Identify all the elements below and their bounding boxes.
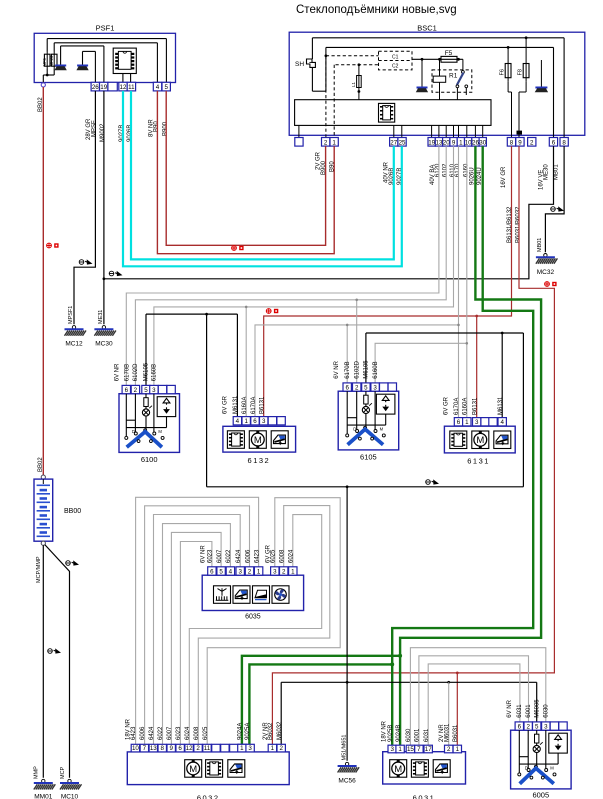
wire [145, 394, 147, 398]
wire B6031 branch [456, 673, 458, 745]
inductor L1 [351, 63, 361, 99]
pin 20 [443, 138, 450, 147]
6100 switch contacts [125, 429, 164, 440]
pin (empty) [489, 418, 497, 426]
pin 1 [463, 418, 471, 426]
6131 window-lift icon [494, 431, 511, 449]
svg-text:2: 2 [447, 746, 451, 753]
6131 electronics icon [450, 431, 467, 449]
battery BB00 [34, 479, 53, 541]
svg-text:26: 26 [92, 84, 99, 91]
pin stub [458, 125, 460, 137]
pin 6 [549, 138, 557, 147]
wire [126, 419, 135, 421]
svg-text:MB01: MB01 [554, 164, 560, 180]
fuse F6 [500, 46, 512, 138]
svg-text:6102D: 6102D [355, 360, 361, 378]
svg-text:M6031: M6031 [445, 723, 451, 742]
6105 resistor [364, 395, 368, 404]
pin stub [431, 125, 433, 137]
6105 indicator lamp [362, 403, 372, 413]
svg-text:6032: 6032 [197, 794, 220, 799]
splice B6131/B6132 (red) [266, 309, 278, 314]
pin 12 [119, 82, 127, 91]
6035 fan icon [272, 586, 289, 604]
pin (empty) [221, 744, 229, 752]
wire [519, 763, 558, 765]
window motor unit 6032 [127, 752, 289, 785]
svg-text:6025: 6025 [203, 726, 209, 740]
svg-text:10: 10 [132, 745, 139, 752]
6035 door glass icon [253, 586, 270, 604]
internal ground (near R1) [416, 58, 428, 92]
fuse F8 [518, 36, 529, 137]
pin 5 [533, 722, 541, 730]
svg-text:SH: SH [295, 61, 304, 68]
svg-text:5: 5 [364, 384, 368, 391]
6035 window icon [233, 586, 250, 604]
pin 3 (green) [246, 744, 254, 752]
6132 electronics icon [227, 431, 244, 449]
svg-text:M: M [380, 427, 384, 432]
pin 8b [560, 138, 568, 147]
svg-text:6424: 6424 [149, 726, 155, 740]
pin 1 (supply) [268, 744, 276, 752]
svg-text:6: 6 [253, 418, 257, 425]
svg-text:9: 9 [169, 745, 173, 752]
svg-text:MC10: MC10 [61, 794, 79, 799]
pin 2 [245, 567, 253, 575]
svg-text:6170A: 6170A [251, 397, 257, 414]
pin 2 [524, 722, 532, 730]
svg-text:4: 4 [500, 419, 504, 426]
ground MC12 [65, 326, 87, 336]
svg-text:6024: 6024 [289, 549, 295, 563]
svg-text:6V GR: 6V GR [223, 395, 229, 414]
wire MPSF (black) PSF1 pin26 to MC12 [74, 91, 95, 324]
wire BB02 (red) PSF1 to battery [42, 87, 44, 475]
svg-text:6V NR: 6V NR [200, 545, 206, 563]
pin 8 [158, 744, 166, 752]
wire M6032 to 6032 [280, 682, 282, 744]
svg-text:BSC1: BSC1 [417, 24, 437, 33]
BSC1 internal IC U2 [379, 103, 395, 122]
wire [518, 730, 520, 772]
pin 3 [150, 385, 158, 393]
internal ground 1 [55, 46, 67, 70]
svg-text:6030: 6030 [544, 704, 550, 718]
splice e+ (MCP) [66, 560, 79, 565]
svg-text:6160B: 6160B [373, 361, 379, 378]
wire [46, 69, 48, 75]
svg-text:BB00: BB00 [64, 508, 81, 515]
svg-text:C1: C1 [392, 54, 399, 60]
pin 8 [507, 138, 515, 147]
pin 11 [203, 744, 211, 752]
6105 selector lever (blue) [348, 429, 384, 445]
wire [145, 407, 147, 409]
svg-text:6008: 6008 [280, 549, 286, 563]
wire to pin 8 (MB01) [563, 38, 565, 138]
svg-text:2: 2 [279, 745, 283, 752]
pin 6 [208, 567, 216, 575]
svg-text:MB01: MB01 [537, 238, 543, 252]
6031 motor icon M [390, 760, 407, 778]
svg-text:6022: 6022 [158, 726, 164, 740]
pin 30 [479, 138, 486, 147]
svg-text:MC12: MC12 [65, 341, 83, 348]
6132 motor icon M [249, 431, 266, 449]
roof console unit 6035 [202, 575, 303, 610]
svg-text:6031: 6031 [424, 728, 430, 742]
wire 6024 (grey) 6035 - 6032 [189, 515, 321, 745]
wire [53, 69, 55, 75]
wire M9002/ME31 (black) PSF1 pin19 to MC30 [103, 91, 105, 324]
pin 13 [149, 744, 157, 752]
wire [557, 753, 559, 764]
svg-text:6031: 6031 [413, 794, 436, 799]
wire [165, 39, 167, 83]
wire M6031 to 6031 (grey) [448, 682, 450, 745]
pin 5 [362, 383, 370, 391]
svg-text:M6105: M6105 [364, 360, 370, 379]
svg-text:9025B: 9025B [388, 725, 394, 742]
svg-text:2: 2 [248, 568, 252, 575]
connector SH [295, 59, 315, 68]
svg-text:2: 2 [134, 387, 138, 394]
switch unit 6105 [338, 391, 399, 450]
wire [366, 332, 524, 334]
6005 switch contacts [518, 765, 556, 776]
pin (empty) [481, 418, 489, 426]
svg-text:M: M [476, 435, 484, 446]
wire 6008 (grey) 6035 - 6032 [198, 506, 329, 745]
svg-text:D: D [525, 766, 528, 771]
node BB02 terminal [41, 83, 45, 87]
6032 electronics icon [206, 760, 223, 778]
svg-text:9024B: 9024B [396, 725, 402, 742]
wire MCP (black) battery to MC10 [45, 545, 70, 778]
svg-text:BB02: BB02 [38, 457, 44, 472]
pin 3 [371, 383, 379, 391]
svg-text:ME30: ME30 [543, 164, 549, 180]
svg-text:MC56: MC56 [338, 778, 356, 785]
pin 1 [242, 417, 250, 425]
fuse F5 [412, 50, 463, 62]
pin 10 [465, 138, 472, 147]
svg-text:3: 3 [152, 387, 156, 394]
wire [325, 47, 327, 91]
wire rail (M9002) [61, 45, 104, 47]
wire [103, 46, 105, 82]
wire [156, 43, 158, 83]
wire M6131 to 6132 pin4 [236, 314, 238, 417]
svg-text:3: 3 [262, 418, 266, 425]
svg-text:6005: 6005 [532, 791, 549, 799]
svg-text:B900: B900 [162, 121, 168, 136]
svg-text:6007: 6007 [217, 549, 223, 563]
svg-text:3: 3 [273, 568, 277, 575]
svg-text:B6131: B6131 [472, 397, 478, 415]
svg-text:MF24: MF24 [49, 55, 54, 66]
wire [536, 743, 538, 745]
wire [312, 90, 326, 92]
pin (empty) [380, 383, 388, 391]
svg-text:2: 2 [530, 139, 534, 146]
wire [125, 394, 127, 436]
svg-text:PSF1: PSF1 [96, 24, 115, 33]
svg-text:6: 6 [518, 723, 522, 730]
svg-text:5: 5 [144, 387, 148, 394]
wire 6025 (grey) 6035 - 6032 [207, 498, 340, 745]
splice BB02 (red) [47, 243, 59, 248]
svg-text:1: 1 [465, 419, 469, 426]
svg-text:6102: 6102 [443, 163, 449, 177]
pin 15 [406, 745, 414, 753]
wire M6131 to 6131 pin4 [501, 333, 503, 418]
pin 10 [131, 744, 139, 752]
svg-text:MC32: MC32 [537, 269, 555, 276]
pin 3 [260, 417, 268, 425]
wire MB01 (black) BSC1 pin8 to MC32 [545, 146, 564, 252]
6100 rocker switch [157, 397, 176, 417]
svg-text:6008: 6008 [194, 726, 200, 740]
svg-text:6007: 6007 [167, 726, 173, 740]
pin 4 [226, 567, 234, 575]
window motor unit 6132 [223, 426, 296, 452]
svg-text:6170B: 6170B [345, 361, 351, 378]
pin 6 [122, 385, 130, 393]
svg-text:6100: 6100 [141, 455, 158, 464]
pin 1 [254, 567, 262, 575]
svg-text:1: 1 [398, 746, 402, 753]
wire B6031/B6032 (red) to 6031 and 6032 [272, 146, 554, 744]
pin 5 [217, 567, 225, 575]
wire 6022 (grey) 6035 - 6032 [163, 524, 231, 745]
svg-text:6131: 6131 [467, 457, 490, 466]
6131 motor icon M [472, 431, 489, 449]
pin 4 [498, 418, 506, 426]
svg-text:1: 1 [291, 568, 295, 575]
svg-text:8: 8 [510, 139, 514, 146]
wire 6160 (grey) BSC1 pin10 to 6131 pin1 / 6105 pin3 [466, 146, 468, 418]
6105 rocker switch [376, 394, 395, 414]
wire [145, 416, 147, 430]
svg-text:L1: L1 [351, 81, 356, 87]
wire [207, 486, 524, 488]
pin 3 [236, 567, 244, 575]
wire 9025A (green branch) [249, 664, 392, 744]
svg-text:MMP: MMP [34, 766, 40, 779]
splice B900 (red) [232, 246, 244, 251]
wire [365, 404, 367, 406]
svg-text:3: 3 [544, 723, 548, 730]
wire 6110 (grey) BSC1 pin9 to 6100 pin3 / 6132 pin1 [154, 146, 454, 385]
svg-text:30: 30 [479, 139, 486, 146]
wire [311, 67, 313, 91]
svg-text:B90: B90 [154, 121, 160, 132]
svg-text:6: 6 [210, 568, 214, 575]
svg-text:1: 1 [271, 745, 275, 752]
wire [153, 394, 155, 432]
svg-text:9024A: 9024A [238, 723, 244, 740]
6005 selector lever (blue) [520, 768, 554, 784]
svg-text:1: 1 [240, 745, 244, 752]
pin stub [445, 125, 447, 137]
6005 rocker switch [549, 733, 568, 753]
node battery negative [41, 541, 45, 545]
svg-text:2: 2 [526, 723, 530, 730]
pin 5 [162, 82, 170, 91]
pin 2 [445, 745, 453, 753]
pin stub [466, 125, 468, 137]
pin (empty) [550, 722, 558, 730]
wire [346, 391, 348, 433]
6032 motor icon M [185, 760, 202, 778]
svg-text:M6105: M6105 [144, 362, 150, 381]
6100 resistor [144, 398, 148, 407]
svg-text:R1: R1 [449, 73, 458, 80]
svg-text:4: 4 [156, 84, 160, 91]
pin 1 [396, 745, 404, 753]
wire 9027B (cyan) PSF1 pin12 - BSC1 pin25 [123, 91, 402, 266]
svg-text:6031: 6031 [517, 704, 523, 718]
wire rail2 [326, 46, 554, 48]
svg-text:3: 3 [373, 384, 377, 391]
dashed line to pin 1 [333, 65, 335, 138]
ground MC56 [338, 762, 360, 772]
pin 2 [322, 138, 330, 147]
pin 3 [388, 745, 396, 753]
6031 electronics icon [411, 760, 428, 778]
pin 3 [542, 722, 550, 730]
dashed control line [326, 55, 379, 57]
svg-text:25: 25 [399, 139, 406, 146]
6105 switch contacts [346, 426, 386, 437]
svg-text:MC30: MC30 [95, 341, 113, 348]
svg-text:6030: 6030 [406, 728, 412, 742]
wire [545, 730, 547, 768]
svg-text:6: 6 [457, 419, 461, 426]
svg-text:6: 6 [178, 745, 182, 752]
svg-text:D: D [353, 427, 356, 432]
svg-text:6V NR: 6V NR [507, 699, 513, 717]
svg-text:M: M [254, 435, 262, 446]
svg-text:8: 8 [562, 139, 566, 146]
svg-text:M6131: M6131 [498, 396, 504, 415]
wire 6102D branch [356, 300, 358, 383]
pin 1g2 [289, 567, 297, 575]
ECU PSF1 (engine-bay fuse box) [34, 24, 175, 83]
ECU BSC1 (body control unit) [289, 24, 585, 136]
wire ME30 (black) BSC1 pin6 to splice line [104, 146, 554, 279]
capacitors C1 C2 (dashed block) [379, 51, 413, 70]
pin 2 [353, 383, 361, 391]
svg-text:1: 1 [244, 418, 248, 425]
svg-text:6160B: 6160B [152, 364, 158, 381]
wire [519, 756, 528, 758]
svg-text:11: 11 [204, 745, 211, 752]
svg-text:6025: 6025 [271, 549, 277, 563]
splice e+ (ME31) [109, 271, 122, 276]
pin 11 [127, 82, 135, 91]
svg-text:6423: 6423 [254, 549, 260, 563]
splice e+ (module ground) [426, 479, 439, 484]
wire B900 (red) PSF1 pin5 - BSC1 pin2 [166, 91, 325, 245]
pin 2g2 [280, 567, 288, 575]
wire [42, 75, 44, 84]
splice B6031/B6032 (red) [545, 282, 557, 287]
node BB02 battery terminal [41, 475, 45, 479]
pin 12 [185, 744, 193, 752]
PSF1 internal IC U1 [113, 48, 136, 82]
pin (empty) [167, 385, 175, 393]
pin 7 [415, 745, 423, 753]
pin 1 [453, 745, 461, 753]
pin 9 [167, 744, 175, 752]
svg-text:15: 15 [407, 746, 414, 753]
pin 9 [516, 138, 524, 147]
svg-text:7: 7 [417, 746, 421, 753]
svg-text:MF5: MF5 [42, 57, 47, 66]
svg-text:16V GR: 16V GR [501, 166, 507, 188]
wire rail1 [312, 37, 564, 39]
pin (empty) [295, 138, 303, 147]
wire rail (B900 feed) [47, 38, 166, 40]
6035 defrost icon [214, 586, 231, 604]
svg-text:17: 17 [425, 746, 432, 753]
pin 13 [435, 138, 442, 147]
svg-text:6160A: 6160A [242, 397, 248, 414]
pin 19 [428, 138, 435, 147]
6132 window-lift icon [271, 431, 288, 449]
svg-text:9: 9 [518, 139, 522, 146]
svg-text:6: 6 [345, 384, 349, 391]
svg-text:C2: C2 [392, 64, 399, 70]
wire 9024U (green) BSC1 pin30 to 6031 pin3 / 6032 [392, 146, 533, 745]
svg-text:11: 11 [128, 84, 135, 91]
wire 6023 (grey) 6035 - 6032 [180, 542, 212, 745]
wire M6005 to 6005 pin5 [536, 682, 538, 723]
fuse MF5 [42, 52, 50, 70]
dashed line to pin 2 [325, 56, 327, 138]
wire B6131/B6132 (red) to 6132 and 6131 [264, 146, 512, 417]
svg-text:18V NR: 18V NR [381, 720, 387, 742]
wire 9026B (cyan) PSF1 pin11 - BSC1 pin27 [131, 91, 394, 260]
svg-text:5: 5 [219, 568, 223, 575]
wire B90 (red) PSF1 pin4 - BSC1 pin1 [157, 91, 334, 254]
switch unit 6005 [511, 730, 571, 789]
svg-text:2: 2 [324, 139, 328, 146]
svg-text:6424: 6424 [236, 549, 242, 563]
wire 6120 (grey) BSC1 pin13 to 6100 pin6 [126, 146, 439, 385]
wire 6424 (grey) 6035 - 6032 [154, 515, 241, 745]
svg-text:6102D: 6102D [133, 363, 139, 381]
internal ground (right) [535, 60, 548, 92]
pin 26 [472, 138, 479, 147]
6005 resistor [535, 734, 539, 743]
wire [536, 730, 538, 734]
ground MC32 [536, 254, 558, 264]
wire B6131 branch [476, 316, 478, 418]
wire 6160A branch [245, 307, 247, 417]
dashed control line [336, 64, 379, 66]
pin 27 [390, 138, 398, 147]
svg-text:6132: 6132 [248, 456, 271, 465]
svg-text:6006: 6006 [140, 726, 146, 740]
wire M51/M651 to MC56 [346, 487, 348, 761]
svg-text:MCP: MCP [60, 766, 66, 779]
